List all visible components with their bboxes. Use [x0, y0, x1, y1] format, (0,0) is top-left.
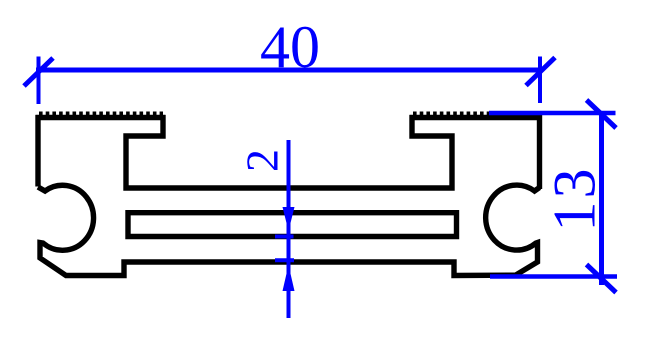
svg-text:2: 2 — [237, 149, 288, 172]
svg-text:40: 40 — [260, 14, 320, 80]
svg-text:13: 13 — [542, 166, 608, 232]
